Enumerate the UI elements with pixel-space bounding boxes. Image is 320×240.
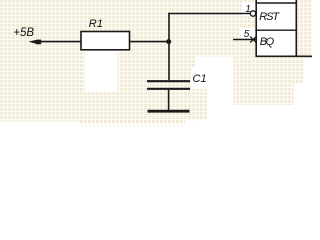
pin 1 bubble [250,11,255,16]
node junction [166,39,171,44]
IC U1 divider [255,29,297,31]
svg-text:C1: C1 [193,73,207,85]
wire +5B to R1 [39,41,81,43]
svg-text:5: 5 [244,29,250,40]
wire junction to C1 [168,42,170,81]
wire C1 to ground [168,90,170,111]
power arrow +5B [29,40,42,45]
svg-text:RST: RST [259,11,280,23]
svg-text:R1: R1 [89,18,103,30]
wire junction up [168,13,170,42]
svg-text:1: 1 [245,4,251,15]
pin 5 no-connect X [250,36,256,42]
IC U1 bottom edge [255,55,312,57]
svg-text:BQ: BQ [260,36,275,48]
wire R1 to junction [130,41,170,43]
pin 5 wire [233,39,256,41]
IC U1 box [255,0,297,56]
wire top to pin 1 [168,13,250,15]
ground bar [148,110,190,113]
resistor R1 [81,32,130,50]
capacitor C1 [147,81,190,89]
svg-text:+5B: +5B [13,27,34,39]
